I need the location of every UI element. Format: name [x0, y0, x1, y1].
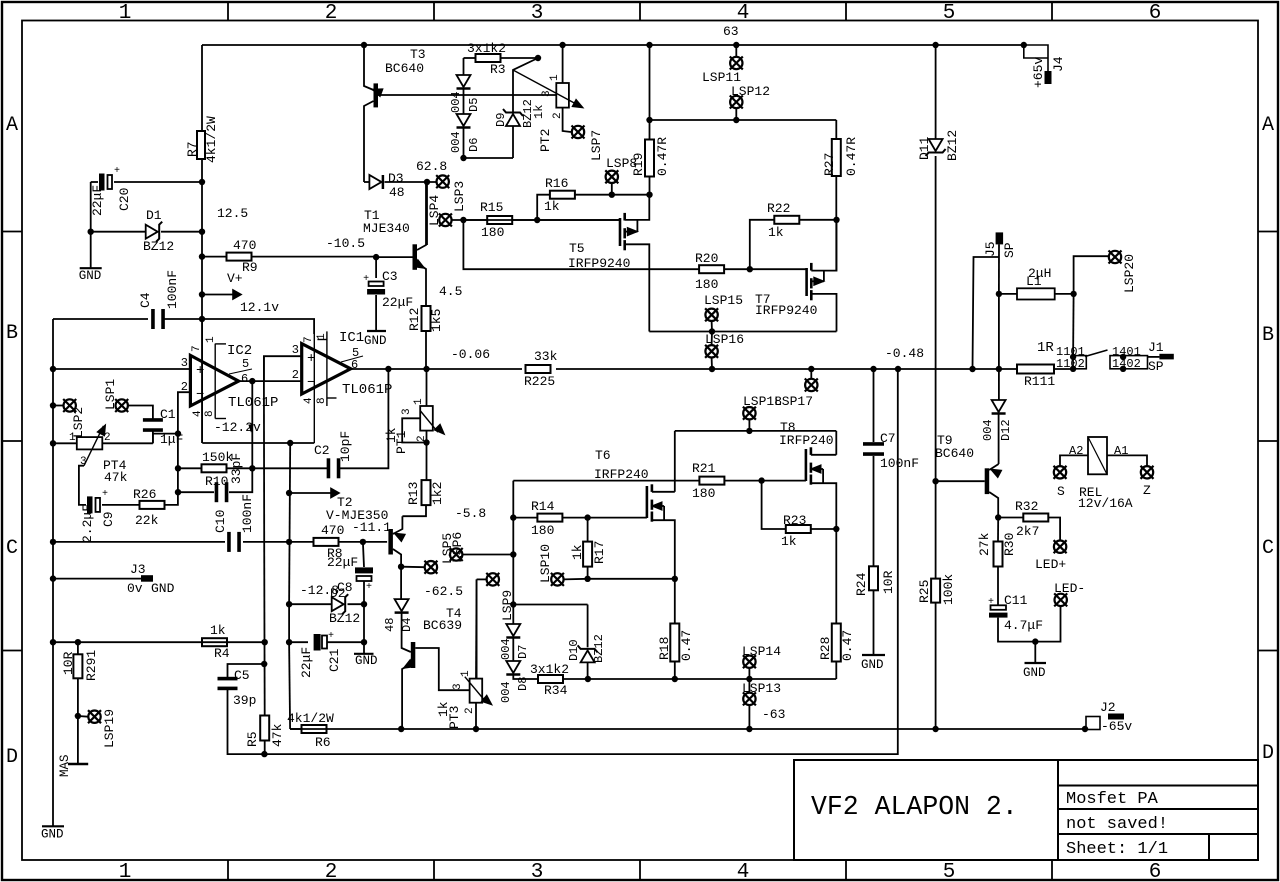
resistor R15 180: [463, 219, 486, 221]
svg-text:R32: R32: [1015, 499, 1038, 514]
svg-text:4.5: 4.5: [439, 284, 462, 299]
svg-text:D1: D1: [146, 208, 162, 223]
svg-text:2k7: 2k7: [1016, 524, 1039, 539]
svg-text:MAS: MAS: [58, 754, 72, 777]
svg-text:+: +: [196, 363, 204, 379]
connector J2 -65v: [1085, 728, 1086, 730]
svg-text:62.8: 62.8: [416, 159, 447, 174]
diode D4 48: [395, 599, 409, 611]
svg-text:BC639: BC639: [423, 618, 462, 633]
svg-text:+65v: +65v: [1031, 57, 1046, 88]
svg-text:LED+: LED+: [1035, 557, 1066, 572]
svg-text:D7: D7: [516, 645, 530, 659]
ground below C3: [367, 330, 386, 332]
svg-text:27k: 27k: [977, 532, 992, 556]
svg-text:1: 1: [205, 336, 217, 343]
svg-text:1: 1: [413, 398, 425, 405]
svg-text:33k: 33k: [534, 349, 558, 364]
resistor R20 180: [699, 265, 724, 273]
svg-text:R9: R9: [242, 260, 258, 275]
resistor R13 1k2: [422, 480, 431, 505]
svg-text:VF2 ALAPON 2.: VF2 ALAPON 2.: [811, 792, 1018, 822]
svg-text:47k: 47k: [104, 470, 128, 485]
svg-text:+: +: [328, 631, 334, 642]
svg-text:1: 1: [460, 670, 472, 677]
svg-text:R23: R23: [783, 513, 806, 528]
svg-text:3: 3: [181, 356, 188, 370]
svg-text:48: 48: [389, 185, 405, 200]
svg-text:R13: R13: [406, 482, 421, 505]
testpoint arrow 12.1v: [199, 291, 205, 297]
svg-text:2: 2: [292, 368, 299, 382]
wire T6 drain: [674, 431, 676, 492]
wire lower drain line: [675, 430, 837, 432]
svg-text:004: 004: [981, 419, 995, 441]
svg-text:4: 4: [192, 410, 204, 417]
svg-text:3: 3: [531, 2, 544, 25]
svg-text:0v: 0v: [127, 581, 143, 596]
ground below R24: [862, 654, 885, 656]
svg-text:+: +: [363, 274, 369, 285]
resistor R32 2k7: [998, 517, 1023, 519]
svg-text:Mosfet PA: Mosfet PA: [1066, 790, 1159, 809]
svg-text:39p: 39p: [233, 693, 256, 708]
solder pad LSP6: [450, 548, 462, 560]
svg-text:PT2: PT2: [538, 129, 553, 152]
op-amp IC1 TL061P: [302, 344, 351, 394]
svg-text:C1: C1: [160, 407, 176, 422]
ground below C11: [1034, 642, 1036, 663]
solder pad LSP11: [733, 42, 739, 48]
svg-text:PT1: PT1: [394, 430, 409, 454]
svg-text:2: 2: [464, 707, 476, 714]
solder pad LSP2: [50, 402, 56, 408]
resistor R18 0.47: [670, 624, 679, 662]
svg-text:GND: GND: [79, 269, 102, 283]
resistor R225 33k: [526, 365, 551, 373]
svg-text:MJE340: MJE340: [363, 221, 410, 236]
svg-text:-5.8: -5.8: [455, 506, 486, 521]
svg-text:1k: 1k: [768, 225, 784, 240]
svg-text:V+: V+: [227, 271, 243, 286]
junction R12/PT1: [423, 366, 429, 372]
svg-text:R21: R21: [692, 461, 716, 476]
trimmer PT3 1k: [470, 679, 483, 703]
svg-text:GND: GND: [41, 827, 64, 841]
svg-text:470: 470: [233, 238, 256, 253]
svg-text:GND: GND: [364, 334, 387, 348]
junction C20 node: [199, 179, 205, 185]
diode D10 BZ12: [513, 604, 587, 606]
svg-text:4.7μF: 4.7μF: [1004, 618, 1043, 633]
svg-text:R5: R5: [245, 731, 260, 747]
svg-text:T6: T6: [595, 448, 611, 463]
svg-text:22μF: 22μF: [327, 555, 358, 570]
resistor R5 47k: [260, 716, 269, 741]
svg-text:1: 1: [69, 432, 76, 444]
capacitor C2 10pF: [327, 458, 331, 478]
svg-text:0.47R: 0.47R: [844, 137, 859, 176]
op-amp V- rail: [202, 442, 314, 444]
wire gate bias line upper: [452, 219, 621, 221]
svg-text:LSP17: LSP17: [774, 394, 813, 409]
svg-text:004: 004: [499, 638, 513, 660]
svg-text:B: B: [1262, 324, 1274, 347]
resistor R111 1R: [1017, 365, 1054, 374]
svg-text:R34: R34: [544, 683, 568, 698]
svg-text:8: 8: [316, 397, 328, 404]
svg-text:22μF: 22μF: [299, 647, 314, 678]
svg-text:180: 180: [531, 523, 554, 538]
svg-text:-65v: -65v: [1101, 719, 1132, 734]
svg-text:C: C: [6, 537, 18, 560]
svg-text:BC640: BC640: [385, 61, 424, 76]
wire PT4 pin3 to C9: [79, 466, 86, 505]
svg-text:7: 7: [191, 345, 203, 352]
capacitor C9 2.2uF: [87, 496, 93, 513]
svg-text:IC1: IC1: [339, 330, 364, 346]
svg-text:R225: R225: [524, 374, 555, 389]
capacitor C11 4.7uF: [997, 567, 999, 606]
solder pad LED+: [1054, 541, 1066, 553]
solder pad LSP17: [805, 379, 817, 391]
svg-text:-62.5: -62.5: [424, 584, 463, 599]
capacitor C5 39p: [228, 664, 265, 679]
svg-text:180: 180: [695, 277, 718, 292]
wire PT3 pin1 up: [475, 579, 478, 678]
svg-text:5: 5: [943, 861, 956, 882]
svg-text:D11: D11: [917, 136, 932, 160]
svg-text:3: 3: [541, 90, 553, 97]
svg-text:IRFP9240: IRFP9240: [568, 256, 630, 271]
svg-text:R111: R111: [1024, 374, 1055, 389]
solder pad LSP7: [572, 126, 584, 138]
wire LSP1 to C1: [128, 406, 153, 422]
resistor R4 1k: [202, 638, 227, 646]
svg-text:1k2: 1k2: [430, 482, 445, 505]
wire T9 base: [932, 478, 938, 484]
svg-text:J2: J2: [1100, 700, 1116, 715]
svg-text:D6: D6: [467, 138, 481, 152]
svg-text:1: 1: [119, 2, 132, 25]
svg-text:0.47: 0.47: [840, 630, 855, 661]
resistor R17 1k: [587, 518, 589, 542]
wire to IC1 +input: [264, 356, 302, 381]
wire R17 to T6 source: [588, 578, 675, 580]
wire IC1 +in divider vertical: [263, 356, 265, 381]
wire to C2: [252, 467, 330, 469]
capacitor C8b 33pF: [175, 489, 181, 495]
svg-text:0.47R: 0.47R: [655, 137, 670, 176]
svg-text:R12: R12: [407, 308, 422, 331]
diode D6: [463, 89, 465, 115]
solder pad LSP8: [611, 183, 613, 195]
wire R19 branch: [646, 42, 652, 48]
resistor R26 22k: [140, 501, 165, 509]
svg-text:LSP6: LSP6: [450, 532, 465, 563]
svg-text:LSP4: LSP4: [427, 195, 442, 226]
svg-text:L1: L1: [1026, 274, 1042, 289]
svg-text:1402: 1402: [1112, 357, 1141, 371]
svg-text:+: +: [988, 597, 994, 608]
svg-text:3: 3: [292, 343, 299, 357]
relay contact left: [1073, 356, 1086, 369]
wire IC2 out to feedback node: [251, 381, 253, 468]
diode D3 48: [364, 181, 369, 183]
svg-text:4k1/2W: 4k1/2W: [287, 711, 334, 726]
svg-text:3: 3: [531, 861, 544, 882]
diode D1 BZ12: [88, 229, 94, 235]
svg-text:1k5: 1k5: [429, 309, 444, 332]
wire C10 line: [50, 539, 56, 545]
resistor R21 180: [699, 477, 724, 485]
diode D5: [463, 58, 465, 75]
svg-text:10R: 10R: [61, 651, 76, 675]
svg-text:D10: D10: [567, 639, 581, 661]
svg-text:-0.06: -0.06: [451, 347, 490, 362]
diodes D7 D8 chain: [510, 601, 516, 607]
svg-text:R14: R14: [531, 499, 555, 514]
relay contact arm: [1085, 350, 1108, 357]
resistor R7: [197, 131, 205, 159]
solder pad LSP9: [477, 578, 487, 580]
svg-text:R30: R30: [1002, 533, 1017, 556]
svg-text:1k: 1k: [781, 534, 797, 549]
relay REL coil: [1088, 437, 1107, 474]
svg-text:SP: SP: [1148, 359, 1164, 374]
svg-text:47k: 47k: [270, 723, 285, 747]
svg-text:C21: C21: [327, 648, 342, 672]
svg-text:A: A: [1262, 114, 1274, 137]
svg-text:GND: GND: [151, 581, 175, 596]
svg-text:D: D: [6, 746, 18, 769]
svg-text:6: 6: [1149, 861, 1162, 882]
svg-text:C2: C2: [314, 443, 330, 458]
svg-text:180: 180: [692, 486, 715, 501]
solder pad LSP1: [116, 399, 128, 411]
svg-text:12.1v: 12.1v: [240, 300, 279, 315]
resistor R23 1k: [762, 481, 786, 529]
svg-text:T5: T5: [569, 241, 585, 256]
svg-text:-11.1: -11.1: [352, 520, 391, 535]
svg-text:R6: R6: [315, 735, 331, 750]
svg-text:J1: J1: [1148, 340, 1164, 355]
ground below C21: [363, 642, 365, 654]
svg-text:R22: R22: [767, 201, 790, 216]
svg-text:6: 6: [1149, 2, 1162, 25]
svg-text:5: 5: [242, 357, 249, 371]
svg-text:0.47: 0.47: [679, 630, 694, 661]
resistor R291 10R: [75, 639, 81, 645]
svg-text:4: 4: [303, 397, 315, 404]
junction IC2 output: [249, 378, 255, 384]
wire R4 line: [50, 639, 56, 645]
ground MAS: [68, 763, 88, 765]
svg-text:Z: Z: [1143, 483, 1151, 498]
resistor R14 180: [512, 481, 514, 605]
svg-text:GND: GND: [861, 658, 884, 672]
connector J3 0v GND: [50, 575, 56, 581]
solder pad LSP3: [437, 175, 449, 187]
svg-text:J4: J4: [1051, 56, 1066, 72]
capacitor C8 22uF: [363, 542, 364, 567]
svg-text:R28: R28: [818, 637, 833, 660]
svg-text:C10: C10: [213, 510, 228, 533]
svg-text:8: 8: [204, 410, 216, 417]
solder pad Z: [1141, 466, 1153, 478]
junction T2 collector: [398, 564, 404, 570]
svg-text:Sheet: 1/1: Sheet: 1/1: [1066, 840, 1168, 859]
svg-text:+: +: [366, 582, 372, 593]
svg-text:C11: C11: [1004, 593, 1028, 608]
svg-text:1: 1: [316, 333, 328, 340]
inductor L1 2uH: [1070, 291, 1076, 297]
wire V+ to IC1 pin7: [202, 319, 314, 334]
capacitor C21 22uF: [289, 641, 308, 643]
diode D11 BZ12: [935, 45, 937, 139]
svg-text:D: D: [1262, 742, 1274, 765]
svg-text:B: B: [6, 322, 18, 345]
wire C1 to node: [153, 434, 178, 444]
svg-text:4: 4: [737, 2, 750, 25]
svg-text:6: 6: [241, 372, 248, 386]
svg-text:C4: C4: [138, 292, 153, 308]
wire +65V top rail: [202, 44, 1024, 46]
trimmer PT4 47k: [50, 440, 56, 446]
svg-text:10R: 10R: [881, 570, 896, 594]
svg-text:D5: D5: [467, 98, 481, 112]
svg-text:BC640: BC640: [935, 446, 974, 461]
connector J5 SP: [996, 232, 1004, 244]
resistor R9 470: [199, 253, 205, 259]
wire PT2 to LSP7: [563, 108, 571, 132]
wire C20 to D1: [90, 182, 92, 232]
svg-text:-63: -63: [762, 707, 785, 722]
junction T9 collector: [995, 514, 1001, 520]
svg-text:R291: R291: [84, 650, 99, 681]
wire input gnd vertical: [52, 319, 54, 826]
svg-text:BZ12: BZ12: [143, 239, 174, 254]
diode D9 BZ12: [464, 157, 514, 159]
resistor R27 0.47R: [835, 120, 837, 139]
svg-text:1k: 1k: [544, 199, 560, 214]
svg-text:100nF: 100nF: [880, 456, 919, 471]
capacitor C3 22uF: [375, 257, 377, 278]
svg-text:100k: 100k: [941, 574, 956, 605]
wire LSP9 to PT3: [476, 579, 478, 678]
svg-text:LSP7: LSP7: [589, 130, 604, 161]
trimmer PT2 1k: [559, 42, 565, 48]
resistor R16 1k: [537, 195, 550, 220]
svg-text:D3: D3: [388, 171, 404, 186]
resistor R30 27k: [997, 518, 999, 542]
svg-text:IRFP9240: IRFP9240: [755, 303, 817, 318]
svg-text:TL061P: TL061P: [342, 382, 392, 398]
svg-text:SP: SP: [1002, 242, 1017, 258]
svg-text:S: S: [1057, 484, 1065, 499]
svg-text:TL061P: TL061P: [228, 395, 278, 411]
wire IC2 pin2 feedback: [178, 392, 191, 492]
svg-text:100nF: 100nF: [240, 494, 255, 533]
title block: [794, 760, 1258, 860]
svg-text:R4: R4: [214, 646, 230, 661]
svg-text:-0.48: -0.48: [885, 346, 924, 361]
svg-text:1: 1: [549, 74, 561, 81]
svg-text:1k: 1k: [532, 105, 546, 119]
svg-text:3: 3: [401, 408, 413, 415]
svg-text:33pF: 33pF: [229, 453, 244, 484]
svg-text:GND: GND: [355, 654, 378, 668]
svg-text:R18: R18: [657, 637, 672, 660]
solder pad LSP19: [75, 713, 81, 719]
svg-text:R3: R3: [490, 62, 506, 77]
svg-text:4k1/2W: 4k1/2W: [204, 116, 219, 163]
testpoint arrow T2 link: [286, 490, 292, 496]
svg-text:−: −: [196, 387, 204, 403]
svg-text:2: 2: [325, 861, 338, 882]
capacitor C7 100nF: [870, 366, 876, 372]
svg-text:4: 4: [737, 861, 750, 882]
svg-text:C5: C5: [234, 668, 250, 683]
svg-text:C9: C9: [101, 511, 116, 527]
solder pad S: [1054, 466, 1066, 478]
capacitor C20: [91, 181, 98, 183]
svg-text:D12: D12: [999, 419, 1013, 441]
op-amp IC2 TL061P: [190, 355, 238, 406]
wire upper sources line: [649, 331, 836, 333]
svg-text:+: +: [102, 489, 108, 500]
diode D12: [996, 366, 1002, 372]
svg-text:LSP3: LSP3: [452, 181, 467, 212]
svg-text:LSP1: LSP1: [103, 379, 118, 410]
capacitor C10 100nF: [227, 532, 231, 552]
resistor R19 0.47R: [645, 140, 654, 177]
svg-text:BZ12: BZ12: [329, 611, 360, 626]
capacitor C4 100nF: [199, 316, 205, 322]
svg-text:R7: R7: [185, 141, 200, 157]
resistor R12 1k5: [425, 270, 427, 306]
svg-text:R27: R27: [822, 153, 837, 176]
solder pad LSP20: [1074, 256, 1108, 294]
svg-text:12.5: 12.5: [217, 206, 248, 221]
wire feedback line bottom: [264, 369, 897, 754]
trimmer PT1 1k: [426, 369, 428, 406]
svg-text:1102: 1102: [1056, 357, 1085, 371]
svg-text:2.2μF: 2.2μF: [80, 504, 95, 543]
resistor R28 0.47: [835, 529, 837, 623]
svg-text:12v/16A: 12v/16A: [1078, 496, 1133, 511]
wire T3 base: [378, 94, 557, 96]
svg-text:C7: C7: [880, 431, 896, 446]
svg-text:PT3: PT3: [447, 706, 462, 729]
solder pad LSP4: [439, 214, 451, 226]
svg-text:LSP8: LSP8: [606, 156, 637, 171]
svg-text:1k: 1k: [210, 623, 226, 638]
svg-text:+: +: [114, 166, 120, 177]
junction C2 to rail: [385, 366, 391, 372]
wire R7 branch from rail: [201, 45, 203, 131]
svg-text:470: 470: [321, 523, 344, 538]
svg-text:004: 004: [449, 131, 463, 153]
wire IC2 +input line: [50, 366, 56, 372]
svg-text:BZ12: BZ12: [592, 634, 606, 663]
relay contact right: [1110, 356, 1148, 369]
svg-text:R17: R17: [592, 541, 607, 564]
svg-text:J3: J3: [130, 562, 146, 577]
resistor R25 100k: [931, 579, 940, 603]
svg-text:1: 1: [119, 861, 132, 882]
svg-text:1R: 1R: [1037, 340, 1054, 356]
